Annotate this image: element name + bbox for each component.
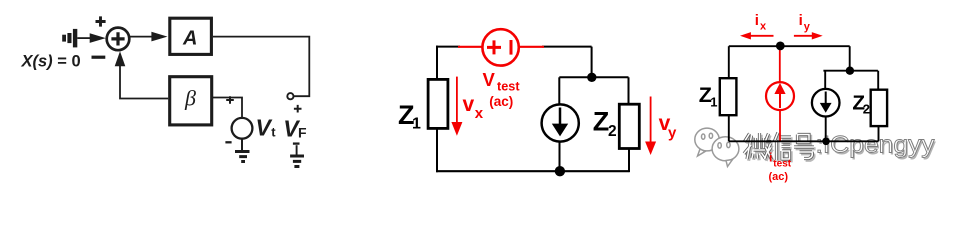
impedance Z1 <box>720 78 737 115</box>
plus inside summer <box>111 32 124 45</box>
wire beta to Vt <box>212 98 242 119</box>
node dot right <box>846 67 854 75</box>
arrowhead into A <box>151 32 167 42</box>
svg-text:2: 2 <box>608 123 617 140</box>
impedance Z2 <box>619 104 639 148</box>
left branch upper <box>728 46 730 78</box>
svg-text:V: V <box>256 115 273 141</box>
plus of Vt <box>226 96 234 104</box>
ground under VF <box>296 145 298 154</box>
svg-text:x: x <box>760 21 767 33</box>
svg-text:(ac): (ac) <box>769 171 789 183</box>
block A <box>170 18 212 54</box>
right horizontal wire <box>823 70 878 72</box>
summing junction <box>107 28 130 51</box>
minus under VF <box>293 142 300 144</box>
top wire left <box>436 46 460 48</box>
bottom wire <box>729 140 879 142</box>
svg-text:i: i <box>755 12 759 29</box>
ground under Vt <box>241 139 243 150</box>
feedback arrowhead <box>115 51 126 66</box>
right circuit wiring <box>720 46 887 141</box>
feedback wire <box>120 66 168 99</box>
output terminal <box>287 93 293 99</box>
wechat icon bubble 2 <box>712 137 739 167</box>
node dot top center <box>776 42 785 51</box>
impedance Z2 branch bottom <box>878 126 880 141</box>
node dot bottom <box>555 166 565 176</box>
arrowhead into summer <box>90 33 106 43</box>
impedance Z2 branch bottom <box>628 149 630 173</box>
svg-text:i: i <box>769 150 772 164</box>
arrow iy (red) <box>794 32 823 39</box>
source Vtest (red) <box>458 29 544 65</box>
node dot top <box>587 73 596 82</box>
svg-text:i: i <box>799 12 803 29</box>
current source arrow <box>825 92 827 105</box>
right corner vert <box>591 47 593 78</box>
current source branch top <box>558 77 560 105</box>
left branch upper <box>436 46 438 80</box>
current source branch top <box>824 71 826 89</box>
label - of summer <box>92 56 106 59</box>
minus of Vt <box>225 141 231 143</box>
mid horizontal wire <box>559 76 628 78</box>
svg-text:v: v <box>463 93 475 116</box>
svg-text:test: test <box>497 80 520 94</box>
arrow vy (red) <box>645 97 656 156</box>
svg-text:(ac): (ac) <box>489 94 513 109</box>
impedance Z2 branch top <box>628 77 630 104</box>
svg-text:Z: Z <box>593 106 610 136</box>
arrow ix (red) <box>740 32 774 39</box>
current source branch bottom <box>825 117 827 142</box>
label + of summer <box>96 16 106 26</box>
svg-text:β: β <box>184 86 196 111</box>
node dot bottom <box>822 138 830 146</box>
current source branch bottom <box>559 142 561 172</box>
wire input to summer <box>77 37 92 39</box>
svg-text::ICpengyy: :ICpengyy <box>816 132 936 159</box>
impedance Z1 <box>428 79 448 128</box>
right corner vert <box>849 46 851 70</box>
wire summer to A <box>129 36 152 38</box>
svg-text:y: y <box>804 21 811 33</box>
wire A to output corner <box>213 37 309 97</box>
svg-text:t: t <box>271 124 276 139</box>
current source arrow <box>559 108 562 125</box>
current source circle <box>542 104 579 141</box>
svg-text:1: 1 <box>710 94 717 109</box>
bottom wire <box>436 170 629 172</box>
svg-text:A: A <box>182 27 197 49</box>
block B (beta) <box>170 77 212 125</box>
plus under terminal <box>294 105 302 113</box>
svg-text:y: y <box>668 124 677 141</box>
wechat icon bubble 1 <box>695 128 719 156</box>
left branch lower <box>728 115 730 141</box>
svg-text:2: 2 <box>863 102 870 117</box>
impedance Z2 branch top <box>877 71 879 90</box>
svg-text:x: x <box>475 105 484 122</box>
top wire <box>729 45 850 47</box>
source Vt <box>232 118 253 139</box>
input step symbol <box>62 29 77 48</box>
svg-text:1: 1 <box>412 115 421 132</box>
left branch lower <box>436 128 438 172</box>
current source circle <box>812 89 840 117</box>
impedance Z2 <box>871 90 887 126</box>
svg-text:V: V <box>483 69 496 90</box>
svg-text:X(s) = 0: X(s) = 0 <box>21 53 81 71</box>
source itest branch (red) <box>766 46 794 140</box>
arrow vx (red) <box>451 77 462 136</box>
top wire right <box>542 46 592 48</box>
svg-text:test: test <box>773 159 791 170</box>
svg-text:F: F <box>298 124 307 140</box>
